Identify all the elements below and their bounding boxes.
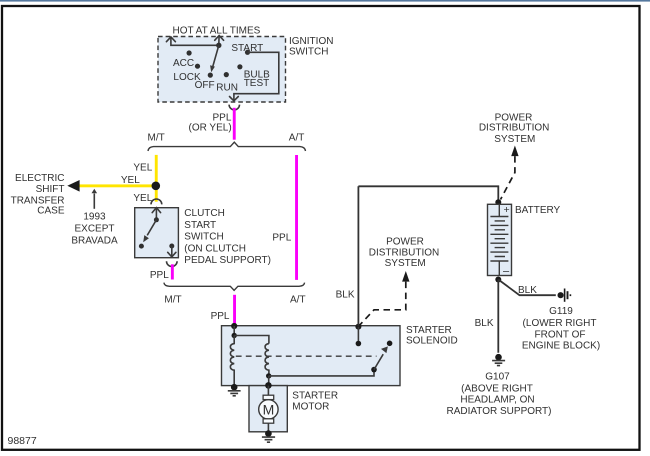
connector arc below clutch switch box — [167, 261, 178, 266]
clutch switch wiper lever — [139, 217, 159, 248]
label IGNITION SWITCH — [289, 36, 333, 57]
label CLUTCH START SWITCH — [184, 208, 271, 266]
svg-text:START: START — [184, 220, 216, 231]
svg-text:–: – — [503, 266, 510, 278]
connector arc below ignition box — [229, 105, 239, 110]
top header bar — [0, 0, 650, 2]
svg-text:FRONT OF: FRONT OF — [535, 329, 586, 340]
ground at solenoid coil — [228, 384, 241, 396]
battery — [488, 204, 512, 278]
ground G107 — [492, 354, 505, 366]
svg-text:OFF: OFF — [195, 80, 215, 91]
svg-text:CLUTCH: CLUTCH — [184, 208, 225, 219]
svg-text:SYSTEM: SYSTEM — [385, 258, 426, 269]
svg-text:M: M — [263, 401, 275, 417]
label ELECTRIC SHIFT TRANSFER CASE — [11, 173, 65, 216]
svg-text:A/T: A/T — [290, 294, 306, 305]
contact LOCK — [173, 64, 201, 83]
svg-text:SOLENOID: SOLENOID — [406, 335, 458, 346]
wire coil junction down to starter motor — [268, 376, 270, 386]
label G107 (ABOVE RIGHT HEADLAMP, ON RADIATOR SUPPORT) — [446, 371, 551, 417]
clutch switch output contact — [168, 244, 176, 257]
node PPL entry on solenoid — [231, 323, 269, 344]
svg-text:(ABOVE RIGHT: (ABOVE RIGHT — [461, 384, 533, 395]
starter motor M — [259, 386, 278, 434]
solenoid actuation dashed link — [236, 355, 377, 357]
wire YEL vertical (M/T branch) — [155, 155, 158, 202]
contact START — [231, 43, 263, 55]
node battery negative — [495, 277, 501, 283]
contact BULB TEST — [237, 64, 270, 89]
svg-text:SWITCH: SWITCH — [289, 46, 328, 57]
svg-text:PPL: PPL — [272, 233, 291, 244]
label G119 (LOWER RIGHT FRONT OF ENGINE BLOCK) — [522, 306, 600, 351]
svg-text:HEADLAMP, ON: HEADLAMP, ON — [460, 395, 534, 406]
svg-text:BLK: BLK — [336, 289, 355, 300]
svg-text:POWER: POWER — [386, 236, 424, 247]
svg-text:PEDAL SUPPORT): PEDAL SUPPORT) — [184, 255, 271, 266]
label PPL (OR YEL) — [189, 113, 232, 134]
wire from START contact to box exit — [230, 52, 279, 101]
svg-text:BLK: BLK — [518, 285, 537, 296]
wire coil junction to solenoid contact arm — [269, 370, 374, 376]
svg-text:ELECTRIC: ELECTRIC — [15, 173, 64, 184]
svg-text:A/T: A/T — [289, 132, 305, 143]
clutch start switch box — [135, 208, 179, 258]
ground at starter motor — [262, 430, 275, 442]
svg-text:SYSTEM: SYSTEM — [494, 134, 535, 145]
svg-text:SHIFT: SHIFT — [36, 184, 65, 195]
svg-text:(LOWER RIGHT: (LOWER RIGHT — [523, 318, 597, 329]
svg-text:ACC: ACC — [173, 58, 194, 69]
svg-text:RUN: RUN — [216, 82, 238, 93]
wire PPL below clutch switch — [171, 264, 174, 279]
svg-text:HOT AT ALL TIMES: HOT AT ALL TIMES — [173, 26, 261, 37]
svg-text:BRAVADA: BRAVADA — [71, 235, 118, 246]
node battery positive — [495, 199, 501, 205]
solenoid fixed contact (motor side) — [387, 341, 393, 347]
wire PPL A/T branch — [295, 155, 298, 280]
solenoid pull-in coil — [230, 336, 234, 387]
svg-text:DISTRIBUTION: DISTRIBUTION — [479, 122, 550, 133]
ignition switch box — [158, 37, 286, 103]
solenoid contact arm with arrow — [371, 346, 388, 372]
svg-text:YEL: YEL — [133, 163, 152, 174]
wire BLK battery negative to G119 — [498, 280, 556, 296]
svg-text:+: + — [504, 204, 510, 216]
svg-text:M/T: M/T — [148, 132, 165, 143]
solenoid fixed contact (battery feed) — [355, 324, 361, 347]
svg-text:G119: G119 — [549, 306, 573, 317]
svg-text:DISTRIBUTION: DISTRIBUTION — [369, 247, 440, 258]
wire battery positive to solenoid feed — [358, 186, 498, 202]
ground stud G119 — [558, 289, 572, 302]
node motor feed — [265, 382, 272, 389]
svg-text:PPL: PPL — [150, 270, 169, 281]
merge brace M/T A/T (lower) — [164, 283, 305, 291]
wire PPL (OR YEL) from ignition switch — [233, 108, 236, 140]
svg-text:STARTER: STARTER — [406, 325, 452, 336]
svg-text:YEL: YEL — [121, 175, 140, 186]
svg-text:ENGINE BLOCK): ENGINE BLOCK) — [522, 340, 600, 351]
switch wiper lever (ignition) — [210, 43, 221, 73]
label STARTER MOTOR — [292, 390, 338, 412]
svg-text:G107: G107 — [485, 371, 510, 382]
contact RUN — [216, 72, 238, 93]
starter solenoid box — [222, 326, 401, 386]
svg-text:MOTOR: MOTOR — [292, 402, 329, 413]
svg-text:1993: 1993 — [83, 211, 106, 222]
label STARTER SOLENOID — [406, 325, 458, 347]
svg-text:M/T: M/T — [164, 294, 181, 305]
wire PPL to starter solenoid — [233, 295, 236, 326]
clutch switch up arrow — [152, 208, 160, 220]
svg-text:SWITCH: SWITCH — [184, 232, 223, 243]
node coil output junction — [266, 373, 271, 378]
wire YEL horizontal to transfer case — [79, 184, 156, 187]
svg-text:STARTER: STARTER — [292, 390, 338, 401]
svg-text:(OR YEL): (OR YEL) — [189, 122, 232, 133]
note arrow 1993 EXCEPT BRAVADA — [71, 189, 118, 247]
power distribution system tap (top right) — [479, 112, 550, 199]
splice brace M/T A/T (split) — [148, 142, 306, 151]
svg-text:(ON CLUTCH: (ON CLUTCH — [184, 243, 246, 254]
svg-text:BATTERY: BATTERY — [515, 205, 561, 216]
svg-text:BLK: BLK — [475, 318, 494, 329]
svg-text:YEL: YEL — [133, 193, 152, 204]
wire BLK battery negative to G107 — [497, 280, 499, 353]
wire BLK battery to solenoid — [357, 186, 359, 325]
svg-text:PPL: PPL — [211, 311, 230, 322]
svg-text:EXCEPT: EXCEPT — [74, 224, 114, 235]
solenoid hold-in coil — [265, 344, 269, 376]
arrowhead to ELECTRIC SHIFT TRANSFER CASE — [67, 180, 79, 192]
svg-text:98877: 98877 — [8, 435, 37, 447]
svg-text:RADIATOR SUPPORT): RADIATOR SUPPORT) — [446, 406, 551, 417]
wire feed arrow center (to HOT AT ALL TIMES) — [215, 36, 224, 46]
svg-text:CASE: CASE — [37, 205, 65, 216]
junction dot YEL — [152, 182, 161, 191]
power distribution system tap (left) — [360, 236, 440, 325]
svg-text:TEST: TEST — [244, 78, 270, 89]
connector arc above clutch switch box — [151, 199, 162, 204]
contact ACC — [173, 50, 194, 68]
contact OFF — [195, 73, 215, 91]
starter motor box — [249, 386, 287, 432]
wire feed arrow left (to HOT AT ALL TIMES) — [166, 37, 218, 45]
